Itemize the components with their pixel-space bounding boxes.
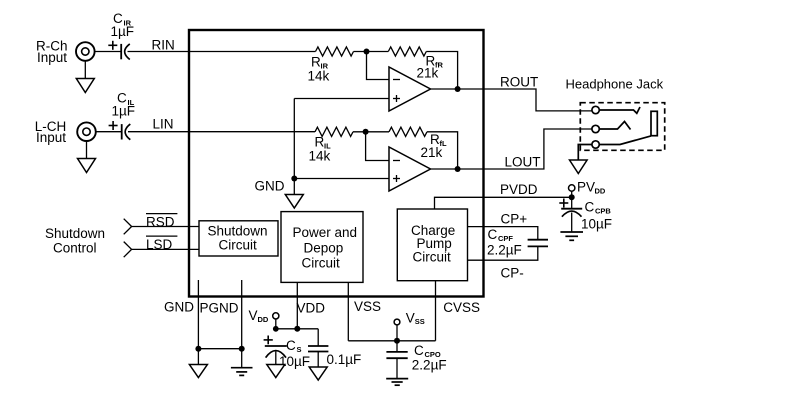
wire C_IR to RIN / R_IR (net RIN) bbox=[128, 51, 316, 53]
label R_IL bbox=[309, 135, 332, 164]
svg-text:SS: SS bbox=[415, 317, 425, 326]
svg-text:CPB: CPB bbox=[595, 207, 611, 216]
svg-text:2.2µF: 2.2µF bbox=[412, 358, 447, 373]
resistor R_fR 21k bbox=[388, 47, 426, 56]
svg-text:2.2µF: 2.2µF bbox=[487, 243, 522, 258]
label L-CH Input bbox=[35, 119, 67, 145]
svg-text:CP-: CP- bbox=[501, 266, 524, 281]
svg-text:Shutdown: Shutdown bbox=[45, 226, 105, 241]
node NL junction bbox=[363, 129, 369, 135]
svg-text:GND: GND bbox=[164, 300, 194, 315]
capacitor C_CPF 2.2uF bbox=[528, 240, 548, 247]
ground (internal GND) bbox=[285, 195, 303, 209]
label R-Ch Input bbox=[36, 39, 68, 65]
wire R_fL to feedback corner bbox=[427, 132, 458, 169]
svg-text:10µF: 10µF bbox=[581, 217, 612, 232]
node V_DD junction bbox=[273, 326, 279, 332]
wire CP+ bbox=[468, 227, 538, 240]
pin GND stub bbox=[197, 280, 199, 349]
node LOUT junction bbox=[455, 166, 461, 172]
svg-text:Power and: Power and bbox=[293, 225, 358, 240]
label Shutdown Control bbox=[45, 226, 105, 255]
svg-text:VDD: VDD bbox=[297, 301, 326, 316]
svg-text:S: S bbox=[297, 345, 302, 354]
pin PGND stub bbox=[241, 280, 243, 349]
svg-text:PV: PV bbox=[577, 180, 595, 195]
node GND bottom junction bbox=[195, 346, 201, 352]
headphone jack dashed box bbox=[580, 103, 664, 151]
label R_fL bbox=[421, 132, 447, 160]
svg-text:DD: DD bbox=[595, 186, 606, 195]
op-amp U1L bbox=[389, 147, 431, 191]
input jack J-L bbox=[77, 122, 96, 141]
jack sleeve contact bbox=[592, 136, 651, 148]
capacitor C_S 10uF bbox=[264, 336, 287, 365]
ground (headphone jack) bbox=[570, 160, 588, 174]
svg-text:GND: GND bbox=[255, 179, 285, 194]
IC boundary box bbox=[189, 30, 484, 297]
chassis ground (C_CPB) bbox=[560, 232, 583, 240]
wire LOUT bbox=[431, 129, 593, 169]
svg-text:Shutdown: Shutdown bbox=[208, 223, 268, 238]
svg-text:Input: Input bbox=[36, 130, 66, 145]
wire CP- bbox=[468, 247, 538, 261]
wire jack sleeve to ground bbox=[578, 145, 592, 161]
wire J-L to ground bbox=[86, 141, 88, 159]
svg-text:1µF: 1µF bbox=[111, 24, 135, 39]
wire R_IL to node NL bbox=[353, 131, 389, 133]
wire LSD bbox=[132, 248, 199, 250]
svg-text:LOUT: LOUT bbox=[505, 155, 541, 170]
svg-text:Circuit: Circuit bbox=[413, 249, 452, 264]
input arrow LSD bbox=[124, 242, 132, 258]
svg-text:RSD: RSD bbox=[146, 214, 175, 229]
wire RSD bbox=[132, 226, 199, 228]
terminal PV_DD bbox=[569, 180, 606, 198]
wire V_DD node to 0.1uF bbox=[276, 328, 318, 330]
chassis ground (PGND) bbox=[231, 368, 253, 376]
svg-text:C: C bbox=[414, 343, 424, 358]
svg-text:C: C bbox=[286, 338, 296, 353]
value label C_IR bbox=[111, 11, 135, 39]
svg-text:C: C bbox=[488, 227, 498, 242]
pin VDD stub bbox=[296, 282, 298, 328]
svg-text:Circuit: Circuit bbox=[302, 256, 341, 271]
capacitor C_IR bbox=[108, 41, 130, 60]
ground (C_S) bbox=[267, 365, 285, 378]
ground (0.1uF) bbox=[309, 367, 327, 380]
wire GND node to ground bbox=[293, 179, 295, 195]
svg-text:Headphone Jack: Headphone Jack bbox=[566, 76, 664, 91]
svg-text:LSD: LSD bbox=[146, 237, 173, 252]
chassis ground (C_CPO) bbox=[386, 379, 408, 386]
node NR junction bbox=[364, 49, 370, 55]
resistor R_IL 14k bbox=[315, 127, 353, 136]
svg-text:CVSS: CVSS bbox=[443, 300, 480, 315]
node VDD junction bbox=[294, 326, 300, 332]
wire GND node to U1L non-inverting input bbox=[294, 178, 389, 180]
svg-text:Input: Input bbox=[37, 50, 67, 65]
wire R_IR to node NR bbox=[354, 51, 389, 53]
svg-text:RIN: RIN bbox=[152, 38, 175, 53]
wire J-R to ground bbox=[84, 61, 86, 79]
svg-text:21k: 21k bbox=[417, 66, 439, 81]
shutdown circuit block bbox=[199, 221, 278, 256]
label R_IR bbox=[308, 55, 330, 84]
capacitor C_CPO 2.2uF bbox=[386, 341, 407, 379]
node PGND junction bbox=[239, 346, 245, 352]
svg-text:ROUT: ROUT bbox=[500, 75, 538, 90]
pin label RSD (active low) bbox=[146, 214, 177, 230]
wire ROUT bbox=[431, 89, 593, 111]
svg-text:Circuit: Circuit bbox=[219, 237, 258, 252]
svg-text:14k: 14k bbox=[308, 69, 330, 84]
ground (L input) bbox=[78, 159, 96, 173]
node GND junction bbox=[291, 176, 297, 182]
pin label LSD (active low) bbox=[146, 236, 177, 252]
svg-text:R: R bbox=[311, 55, 321, 70]
svg-text:DD: DD bbox=[258, 315, 269, 324]
pin VSS stub bbox=[347, 282, 349, 340]
wire GND-PGND rail bbox=[198, 348, 241, 350]
terminal V_DD bbox=[249, 308, 279, 329]
node PVDD junction bbox=[569, 194, 575, 200]
svg-text:VSS: VSS bbox=[354, 299, 381, 314]
pin CVSS stub bbox=[435, 281, 437, 341]
jack sleeve plug bbox=[651, 111, 657, 135]
svg-text:R: R bbox=[315, 135, 325, 150]
power and depop circuit block bbox=[281, 212, 363, 283]
value label C_S bbox=[279, 338, 310, 369]
jack ring contact bbox=[592, 122, 631, 133]
svg-text:PVDD: PVDD bbox=[500, 182, 538, 197]
label R_fR bbox=[417, 54, 444, 81]
input jack J-R bbox=[76, 42, 95, 61]
wire C_IL to LIN / R_IL (net LIN) bbox=[128, 131, 315, 133]
op-amp U1R bbox=[389, 67, 431, 111]
wire GND to ground bbox=[197, 349, 199, 365]
resistor R_fL 21k bbox=[389, 127, 427, 136]
svg-text:Depop: Depop bbox=[304, 240, 344, 255]
svg-text:PGND: PGND bbox=[200, 301, 239, 316]
value label C_CPO bbox=[412, 343, 447, 373]
wire PVDD net bbox=[435, 197, 572, 209]
ground (GND pin) bbox=[189, 365, 207, 378]
svg-text:V: V bbox=[249, 308, 258, 323]
wire VSS rail bbox=[348, 340, 435, 342]
wire PGND to chassis ground bbox=[241, 349, 243, 368]
ground (R input) bbox=[76, 79, 94, 93]
svg-text:V: V bbox=[406, 310, 415, 325]
wire NL to inverting input bbox=[366, 132, 389, 161]
wire R_fR to feedback corner bbox=[426, 52, 457, 90]
svg-text:C: C bbox=[585, 200, 595, 215]
wire J-R to C_IR bbox=[94, 51, 121, 53]
wire GND rail to U1R non-inverting input bbox=[294, 98, 389, 100]
terminal V_SS bbox=[394, 310, 425, 341]
node V_SS junction bbox=[394, 338, 400, 344]
svg-text:21k: 21k bbox=[421, 145, 443, 160]
svg-text:CP+: CP+ bbox=[501, 212, 528, 227]
svg-text:14k: 14k bbox=[309, 149, 331, 164]
capacitor C_CPB 10uF bbox=[559, 197, 582, 232]
svg-text:1µF: 1µF bbox=[112, 104, 136, 119]
GND rail (vertical) bbox=[293, 99, 295, 179]
input arrow RSD bbox=[124, 219, 132, 235]
value label C_CPF bbox=[487, 227, 522, 258]
node ROUT junction bbox=[455, 86, 461, 92]
svg-text:Control: Control bbox=[53, 240, 97, 255]
charge pump circuit block bbox=[397, 209, 467, 281]
capacitor 0.1uF bbox=[308, 329, 328, 367]
capacitor C_IL bbox=[109, 121, 131, 140]
value label C_IL bbox=[112, 91, 136, 119]
resistor R_IR 14k bbox=[316, 47, 354, 56]
jack tip contact bbox=[592, 106, 640, 113]
svg-text:0.1µF: 0.1µF bbox=[327, 352, 362, 367]
wire J-L to C_IL bbox=[96, 131, 122, 133]
svg-text:LIN: LIN bbox=[153, 117, 174, 132]
wire NR to inverting input bbox=[367, 52, 390, 80]
value label C_CPB bbox=[581, 200, 612, 232]
